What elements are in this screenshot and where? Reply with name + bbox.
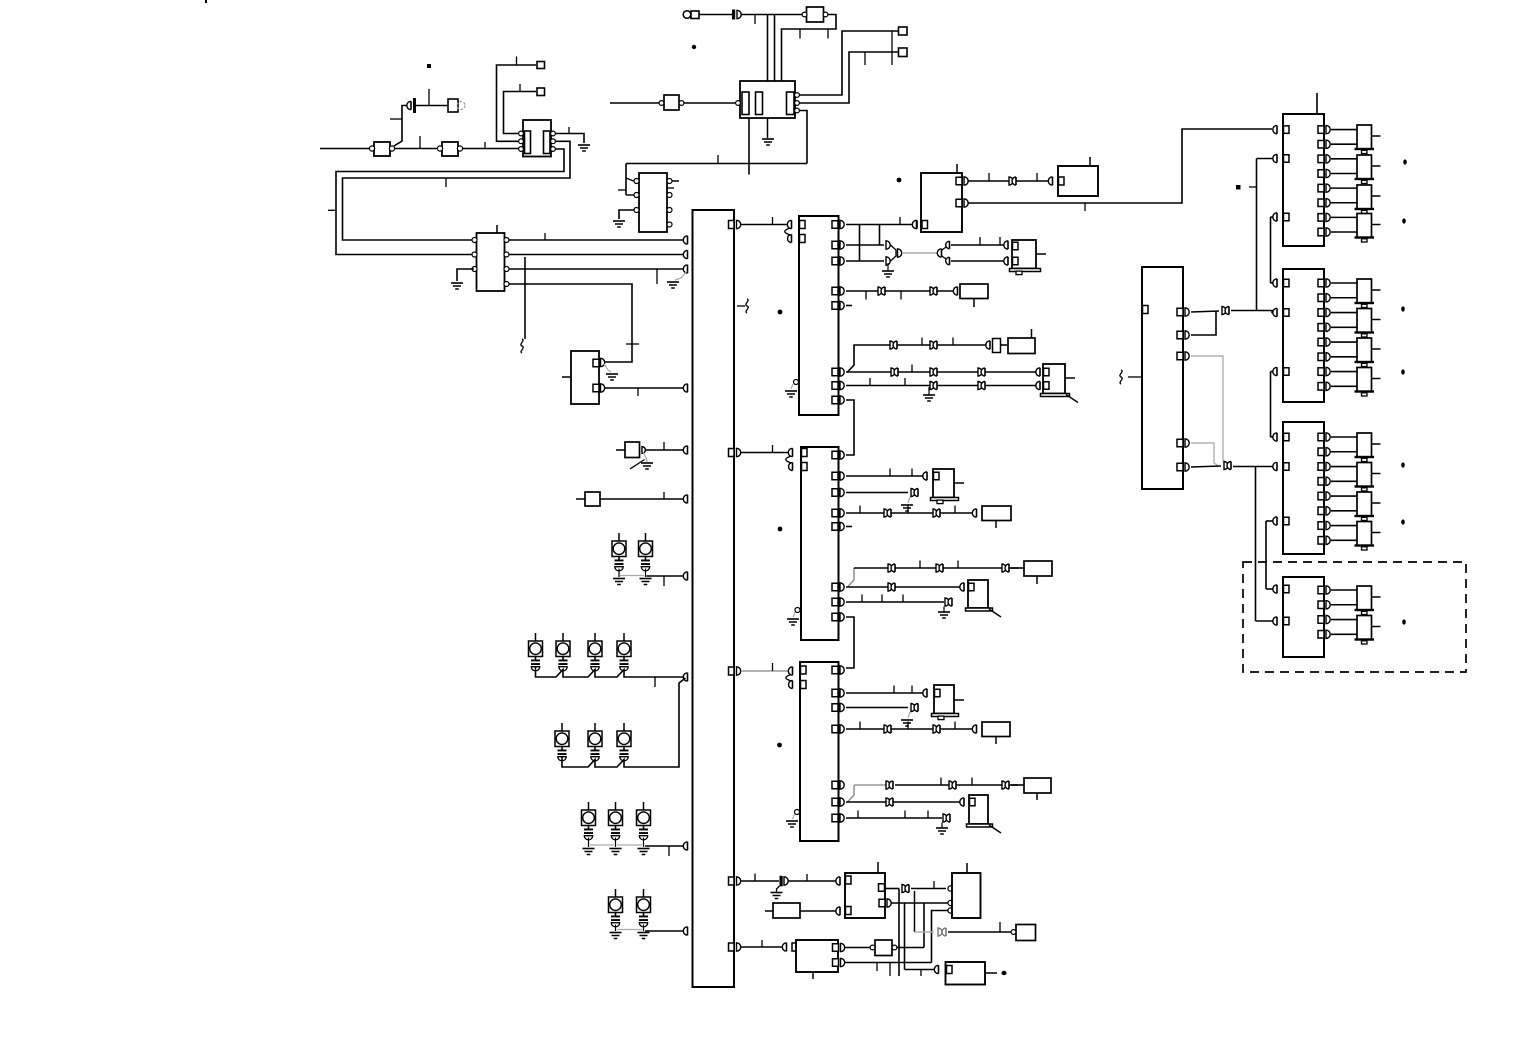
pin in bbox=[1273, 517, 1277, 525]
node K6 in bbox=[960, 798, 964, 806]
wire tick bbox=[911, 469, 913, 477]
wire U4-IC6 bbox=[741, 452, 790, 454]
pin TB1 o2 bbox=[956, 199, 962, 207]
node K2 in1 bbox=[1036, 368, 1040, 376]
wire stub bbox=[877, 862, 879, 873]
wire pin-motor bbox=[1331, 297, 1357, 299]
block TB2 bbox=[1058, 166, 1098, 196]
connector pair bbox=[978, 382, 982, 390]
wire tick bbox=[544, 233, 546, 240]
ground lead bbox=[908, 497, 910, 503]
wire C1-X1 bbox=[416, 105, 448, 107]
connector pair bbox=[884, 509, 888, 517]
node BB4 in bbox=[934, 965, 938, 973]
wire pin-motor bbox=[1331, 231, 1357, 233]
wire v914-pair grey bbox=[915, 931, 935, 933]
motor M bbox=[1357, 586, 1372, 610]
pin U7 out bbox=[832, 798, 838, 806]
wire pin-motor bbox=[1331, 371, 1357, 373]
motor M bbox=[1357, 433, 1372, 457]
wire tick bbox=[979, 237, 981, 245]
connector pair bbox=[936, 564, 940, 572]
ic U2 bbox=[639, 173, 667, 232]
square terminal P1 bbox=[537, 62, 545, 69]
pin in bbox=[1273, 308, 1277, 316]
dot mark bbox=[1402, 619, 1406, 624]
pin T2 r bbox=[795, 108, 800, 113]
wire vertical vE bbox=[1255, 466, 1257, 621]
pin U5 nc bbox=[794, 380, 799, 385]
wire drop bbox=[767, 15, 769, 94]
wire tick bbox=[899, 217, 901, 225]
wire row513 bbox=[846, 512, 974, 514]
wire tick bbox=[568, 127, 570, 134]
relay K2 bbox=[1043, 364, 1065, 394]
wire v931 bbox=[932, 911, 948, 963]
motor M bbox=[1357, 368, 1372, 392]
lamp L bbox=[617, 641, 631, 657]
wire tick bbox=[663, 492, 665, 499]
ground bbox=[762, 138, 774, 140]
pin out bbox=[1318, 140, 1324, 148]
square terminal P2 bbox=[537, 88, 545, 96]
lamp L bbox=[609, 897, 623, 913]
ground bbox=[901, 719, 913, 721]
wire pin-motor bbox=[1331, 282, 1357, 284]
pin TR out bbox=[1177, 439, 1183, 447]
wire drop bbox=[774, 15, 776, 94]
wire SW1-bus bbox=[646, 449, 685, 451]
wire tick bbox=[519, 84, 521, 92]
wire pin-motor bbox=[1331, 589, 1357, 591]
connector pair bbox=[933, 725, 937, 733]
stray mark bbox=[205, 0, 207, 3]
wire tick bbox=[1084, 203, 1086, 211]
wire tick bbox=[940, 778, 942, 786]
ground lead grey bbox=[675, 271, 687, 280]
ic RD bbox=[1283, 577, 1324, 657]
motor M bbox=[1357, 616, 1372, 640]
node BB1 in bbox=[836, 877, 840, 885]
ground lead bbox=[643, 925, 645, 932]
pin U6 out bbox=[832, 523, 838, 531]
ground stem bbox=[777, 886, 780, 892]
wire stub bbox=[846, 526, 852, 528]
ground lead bbox=[615, 838, 617, 848]
pin U2 l bbox=[634, 208, 639, 213]
pin out bbox=[1318, 368, 1324, 376]
wire U9-T2 bbox=[684, 102, 736, 104]
dashed enclosure bbox=[1243, 562, 1466, 672]
connector pair bbox=[949, 781, 953, 789]
wire tick bbox=[954, 722, 956, 730]
block BB3 bbox=[796, 940, 838, 972]
node BX1 in bbox=[953, 287, 957, 295]
connector pair bbox=[890, 341, 894, 349]
connector pair bbox=[1002, 781, 1006, 789]
squiggle net bbox=[1120, 370, 1122, 384]
node BB3 in bbox=[782, 943, 786, 951]
pin out bbox=[1318, 228, 1324, 236]
wire pin-motor bbox=[1331, 619, 1357, 621]
wire stub bbox=[496, 225, 498, 233]
pin U5 in bbox=[800, 221, 806, 229]
pin BB2 2 bbox=[948, 900, 953, 905]
wire tick bbox=[881, 595, 883, 603]
box BX6 bbox=[1024, 778, 1051, 793]
wire tick bbox=[772, 217, 774, 225]
wire corner bbox=[848, 568, 855, 587]
pin out bbox=[1318, 522, 1324, 530]
pin out bbox=[1318, 492, 1324, 500]
wire row707 bbox=[846, 707, 908, 709]
lamp L bbox=[637, 897, 651, 913]
ground lead bbox=[615, 925, 617, 932]
connector pair bbox=[891, 368, 895, 376]
wire U9 left bbox=[610, 102, 659, 104]
wire tick bbox=[654, 677, 656, 687]
wire tick bbox=[954, 506, 956, 514]
wire P2-T1 bbox=[504, 92, 537, 134]
wire stub bbox=[672, 180, 679, 182]
ground bbox=[640, 578, 652, 580]
pin TR out bbox=[1177, 352, 1183, 360]
wire pin-motor bbox=[1331, 495, 1357, 497]
wire long rail bbox=[626, 163, 807, 165]
pin in bbox=[1273, 125, 1277, 133]
pin U2 l bbox=[634, 193, 639, 198]
wire tick bbox=[902, 595, 904, 603]
lamp L bbox=[555, 731, 569, 747]
pin out bbox=[1318, 126, 1324, 134]
pin TB2 bbox=[1059, 177, 1065, 185]
wire grey link bbox=[620, 575, 644, 577]
ic U3 bbox=[571, 351, 599, 404]
pin U5 out bbox=[832, 382, 838, 390]
wire tick bbox=[988, 173, 990, 181]
lamp L bbox=[529, 641, 543, 657]
pin TB1 o1 bbox=[956, 177, 962, 185]
wire tick bbox=[889, 963, 891, 977]
pin out bbox=[1318, 478, 1324, 486]
node bus10 bbox=[683, 927, 687, 935]
ic RB bbox=[1283, 269, 1324, 402]
grey joined wire bbox=[902, 252, 940, 254]
wire TB1 long bbox=[969, 129, 1273, 203]
wire TB1-TB2 bbox=[969, 180, 1051, 182]
connector pair grey bbox=[938, 928, 942, 936]
connector pair bbox=[930, 368, 934, 376]
wire tick bbox=[999, 237, 1001, 245]
wire pin-motor bbox=[1331, 326, 1357, 328]
wire TR w5 bbox=[1191, 466, 1221, 467]
wire tick bbox=[861, 595, 863, 603]
wire U4-IC5 bbox=[741, 224, 789, 226]
node bus4 bbox=[683, 384, 687, 392]
pin out bbox=[1318, 433, 1324, 441]
connector pair bbox=[930, 341, 934, 349]
connector pair bbox=[930, 287, 934, 295]
connector pair bbox=[884, 725, 888, 733]
motor M bbox=[1357, 125, 1372, 149]
wire J1-C2 bbox=[699, 14, 732, 16]
pin U7 out bbox=[832, 814, 838, 822]
wire row602 bbox=[846, 601, 944, 603]
wire v924 bbox=[923, 903, 925, 948]
pin U6 out bbox=[832, 489, 838, 497]
connector pair bbox=[886, 781, 890, 789]
pin in bbox=[1273, 585, 1277, 593]
ground bbox=[771, 892, 783, 894]
wire stub bbox=[616, 449, 625, 451]
pin U4 out bbox=[729, 667, 735, 675]
pin U5 out bbox=[832, 257, 838, 265]
pin out bbox=[1318, 214, 1324, 222]
pin TB1 in bbox=[912, 220, 916, 228]
dot mark bbox=[1001, 971, 1006, 975]
pin T2 r bbox=[795, 101, 800, 106]
wire tick bbox=[927, 811, 929, 819]
wire vert x904 bbox=[904, 903, 906, 970]
wire row492 bbox=[846, 492, 908, 494]
ground bbox=[901, 504, 913, 506]
wire tick bbox=[952, 338, 954, 346]
wire pin-motor bbox=[1331, 356, 1357, 358]
wire main input bbox=[320, 148, 373, 150]
wire TR w3 grey bbox=[1191, 356, 1227, 466]
wire bus3 bbox=[509, 268, 685, 270]
box BX4 bbox=[1024, 561, 1052, 576]
ground bbox=[641, 462, 653, 464]
switch SW1 bbox=[625, 442, 640, 458]
capacitor C3 bbox=[780, 876, 783, 887]
pin BB1 r bbox=[879, 884, 885, 892]
node bus2 bbox=[683, 250, 687, 258]
pin U1 left bbox=[472, 252, 477, 257]
wire tick bbox=[516, 57, 518, 66]
ground bbox=[667, 281, 679, 283]
wire BB3-SB bbox=[845, 947, 870, 949]
lamp L bbox=[582, 810, 596, 826]
wire stub bbox=[956, 164, 958, 173]
wire stub bbox=[562, 376, 571, 378]
transformer T2 bbox=[740, 81, 795, 118]
pin U5 out bbox=[832, 221, 838, 229]
pin U1 right bbox=[504, 282, 509, 287]
pin T1 bbox=[519, 147, 524, 152]
ground bbox=[578, 144, 590, 146]
wire row245 bbox=[846, 244, 884, 246]
box BX3 bbox=[982, 506, 1011, 521]
ground lead bbox=[643, 838, 645, 848]
wire tick bbox=[667, 187, 674, 189]
node bus9 bbox=[683, 842, 687, 850]
ic U6 bbox=[801, 447, 839, 640]
ground bbox=[613, 220, 625, 222]
grey link bbox=[617, 844, 642, 846]
motor M bbox=[1357, 155, 1372, 179]
wire w5b bbox=[1233, 466, 1276, 468]
wire row568 bbox=[854, 567, 1018, 569]
wire tick bbox=[971, 778, 973, 786]
wire SB-v924 bbox=[897, 947, 924, 949]
motor M bbox=[1357, 338, 1372, 362]
wire row947 bbox=[741, 946, 784, 948]
wire tick bbox=[428, 89, 430, 106]
wire row881b bbox=[789, 880, 839, 882]
connector pair bbox=[911, 489, 915, 497]
relay K4 bbox=[968, 580, 988, 608]
pin U2 r bbox=[667, 222, 672, 227]
switch lever bbox=[630, 460, 645, 470]
wire T2-SQ1 bbox=[800, 31, 899, 95]
wire tick bbox=[663, 576, 665, 586]
wire row785b bbox=[895, 784, 1018, 786]
wire tick bbox=[876, 963, 878, 972]
node K1 in1 bbox=[1004, 241, 1008, 249]
wire vertical vB bbox=[1270, 217, 1272, 283]
ground lead bbox=[793, 612, 795, 617]
pin U6 out bbox=[832, 472, 838, 480]
wire row962 bbox=[845, 962, 932, 964]
connector pair bbox=[1002, 564, 1006, 572]
wire stub bbox=[1089, 157, 1091, 166]
dot mark bbox=[1401, 369, 1405, 374]
ic TR tall bbox=[1142, 267, 1183, 489]
wire U1 p4 bbox=[509, 284, 632, 362]
resistor R1 bbox=[374, 142, 390, 156]
motor M bbox=[1357, 309, 1372, 333]
ground bbox=[638, 932, 650, 934]
pin U7 nc bbox=[795, 810, 800, 815]
pin U6 out bbox=[832, 598, 838, 606]
wire corner bbox=[846, 400, 854, 455]
pin TR out bbox=[1177, 308, 1183, 316]
square terminal SQ1 bbox=[899, 27, 908, 35]
pin out bbox=[1318, 616, 1324, 624]
squiggle net bbox=[521, 339, 523, 353]
pin BB2 1 bbox=[948, 886, 953, 891]
wire stub bbox=[966, 863, 968, 873]
ground bbox=[638, 848, 650, 850]
crystal X1 bbox=[448, 99, 458, 112]
ic U8 bbox=[807, 7, 824, 22]
node bus7 bbox=[683, 572, 687, 580]
wire pin-motor bbox=[1331, 480, 1357, 482]
node TB2 in bbox=[1048, 177, 1052, 185]
wire BX6 in bbox=[1011, 784, 1024, 786]
pin in bbox=[1273, 279, 1277, 287]
driver U1 bbox=[477, 233, 505, 291]
wire corner bbox=[848, 785, 855, 802]
pin BB1 b bbox=[846, 907, 852, 915]
pin U1 left bbox=[472, 238, 477, 243]
relay K3 bbox=[933, 469, 954, 498]
resistor R4 bbox=[773, 903, 800, 918]
pin T2 r bbox=[795, 93, 800, 98]
lamp L bbox=[588, 641, 602, 657]
ground lead bbox=[793, 814, 795, 819]
wire tick bbox=[907, 722, 909, 730]
block TB1 bbox=[921, 173, 962, 232]
wire corner bbox=[848, 345, 989, 372]
pin in bbox=[1273, 213, 1277, 221]
ground bbox=[787, 618, 799, 620]
ground bbox=[938, 611, 950, 613]
dot mark bbox=[427, 64, 431, 68]
wire R4-BB1 bbox=[800, 910, 838, 912]
relay K6 bbox=[969, 795, 988, 824]
relay K1 bbox=[1012, 240, 1036, 269]
wire tick bbox=[920, 970, 922, 977]
wire drop b bbox=[879, 225, 881, 246]
resistor R3 bbox=[585, 492, 600, 506]
pin U7 out bbox=[832, 704, 838, 712]
ground lead grey bbox=[604, 364, 611, 372]
wire tick bbox=[761, 940, 763, 947]
wire tick bbox=[893, 686, 895, 694]
wire pin-motor bbox=[1331, 129, 1357, 131]
pin TR out bbox=[1177, 331, 1183, 339]
wire stub bbox=[576, 498, 585, 500]
wire pin-motor bbox=[1331, 158, 1357, 160]
pin BB3 o1 bbox=[833, 944, 839, 952]
connector pair bbox=[1222, 307, 1226, 315]
wire R1-R2 bbox=[394, 148, 441, 150]
capacitor C1 bbox=[407, 101, 411, 109]
dot mark bbox=[1401, 462, 1405, 467]
junction dot bbox=[778, 310, 783, 315]
wire branch to C1 bbox=[394, 106, 407, 147]
ground lead bbox=[791, 384, 793, 389]
pin U4 out bbox=[729, 449, 735, 457]
pin U6 out bbox=[832, 509, 838, 517]
pin out bbox=[1318, 294, 1324, 302]
connector pair bbox=[933, 509, 937, 517]
connector pair bbox=[888, 564, 892, 572]
motor M bbox=[1357, 185, 1372, 209]
node bus8 bbox=[683, 673, 687, 681]
wire rail-U2 bbox=[625, 164, 627, 196]
wire U8 out bbox=[782, 15, 837, 94]
node TB1 in bbox=[913, 220, 917, 228]
wire pin-motor bbox=[1331, 451, 1357, 453]
wire row693 bbox=[846, 692, 924, 694]
pin out bbox=[1318, 309, 1324, 317]
pin out bbox=[1318, 463, 1324, 471]
wire tick bbox=[484, 142, 486, 149]
pin BB2 3 bbox=[948, 908, 953, 913]
wire loop A bbox=[343, 141, 571, 240]
connector J1 bbox=[683, 11, 691, 19]
connector pair bbox=[886, 798, 890, 806]
node K2 in2 bbox=[1036, 381, 1040, 389]
pin out bbox=[1318, 601, 1324, 609]
wire C2-U8 bbox=[742, 14, 804, 16]
node bus3 bbox=[683, 265, 687, 273]
wire stub bbox=[846, 305, 852, 307]
motor M bbox=[1357, 492, 1372, 516]
node bus5 bbox=[683, 446, 687, 454]
wire tick bbox=[772, 663, 774, 671]
wire U1 gnd bbox=[457, 269, 474, 281]
dot mark bbox=[1401, 306, 1405, 311]
wire stub bbox=[812, 972, 814, 979]
wire pin-motor bbox=[1331, 525, 1357, 527]
capacitor C2 bbox=[732, 10, 735, 20]
wire pin-motor bbox=[1331, 604, 1357, 606]
wire bus1 bbox=[509, 239, 685, 241]
